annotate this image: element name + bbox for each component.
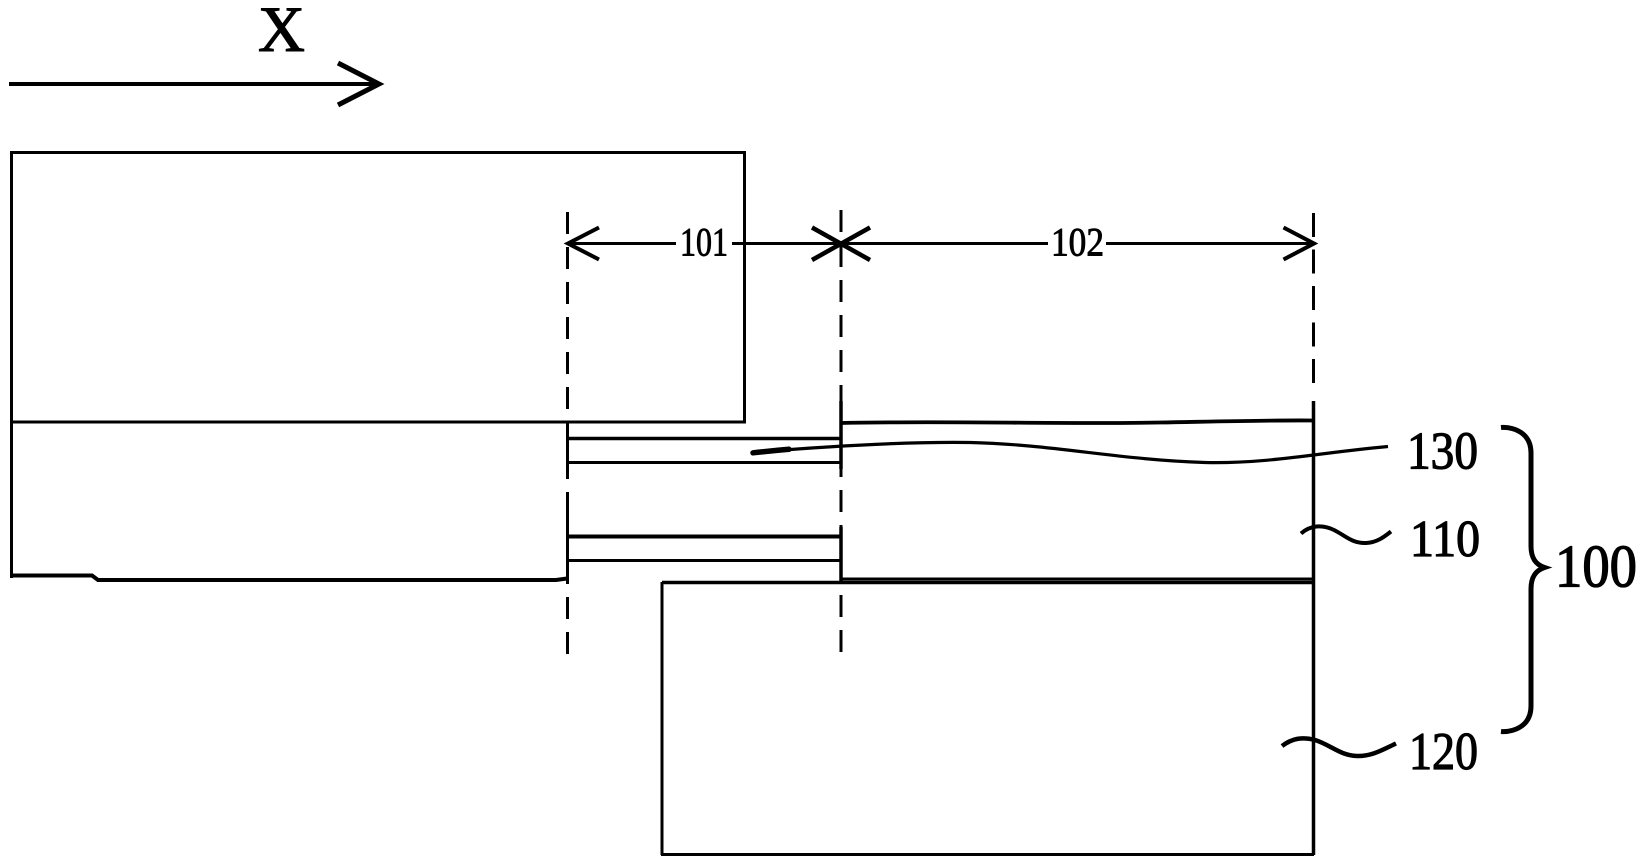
layer 110 top edge in region 102: [841, 420, 1313, 423]
reference tilde to label 110: [1301, 526, 1391, 543]
top-left block: [10, 153, 746, 424]
dimension line 102: [841, 228, 1314, 260]
svg-text:102: 102: [1051, 220, 1104, 265]
layer 130 thin band in region 101: [566, 401, 842, 469]
shared boundary cross marker at x=841: [812, 228, 870, 261]
svg-text:110: 110: [1410, 511, 1480, 568]
svg-text:120: 120: [1409, 723, 1478, 781]
svg-text:130: 130: [1407, 423, 1478, 481]
layer 110 thin band in region 101: [566, 514, 842, 582]
substrate 120 block: [661, 401, 1314, 855]
dashed boundary line at x=1313: [1312, 213, 1315, 389]
layer 110 bottom edge in region 102: [841, 578, 1313, 581]
reference tilde to label 120: [1282, 738, 1396, 756]
dashed boundary line at x=841: [840, 210, 843, 660]
X axis arrow: [9, 63, 379, 105]
reference squiggle line to label 130: [752, 442, 1388, 462]
brace grouping layers into 100: [1501, 427, 1545, 731]
dashed boundary line at x=568: [566, 212, 569, 662]
svg-text:X: X: [258, 0, 305, 66]
svg-text:101: 101: [680, 220, 728, 265]
svg-text:100: 100: [1555, 534, 1637, 600]
lower-left block: [10, 422, 567, 580]
dimension line 101: [568, 228, 841, 260]
